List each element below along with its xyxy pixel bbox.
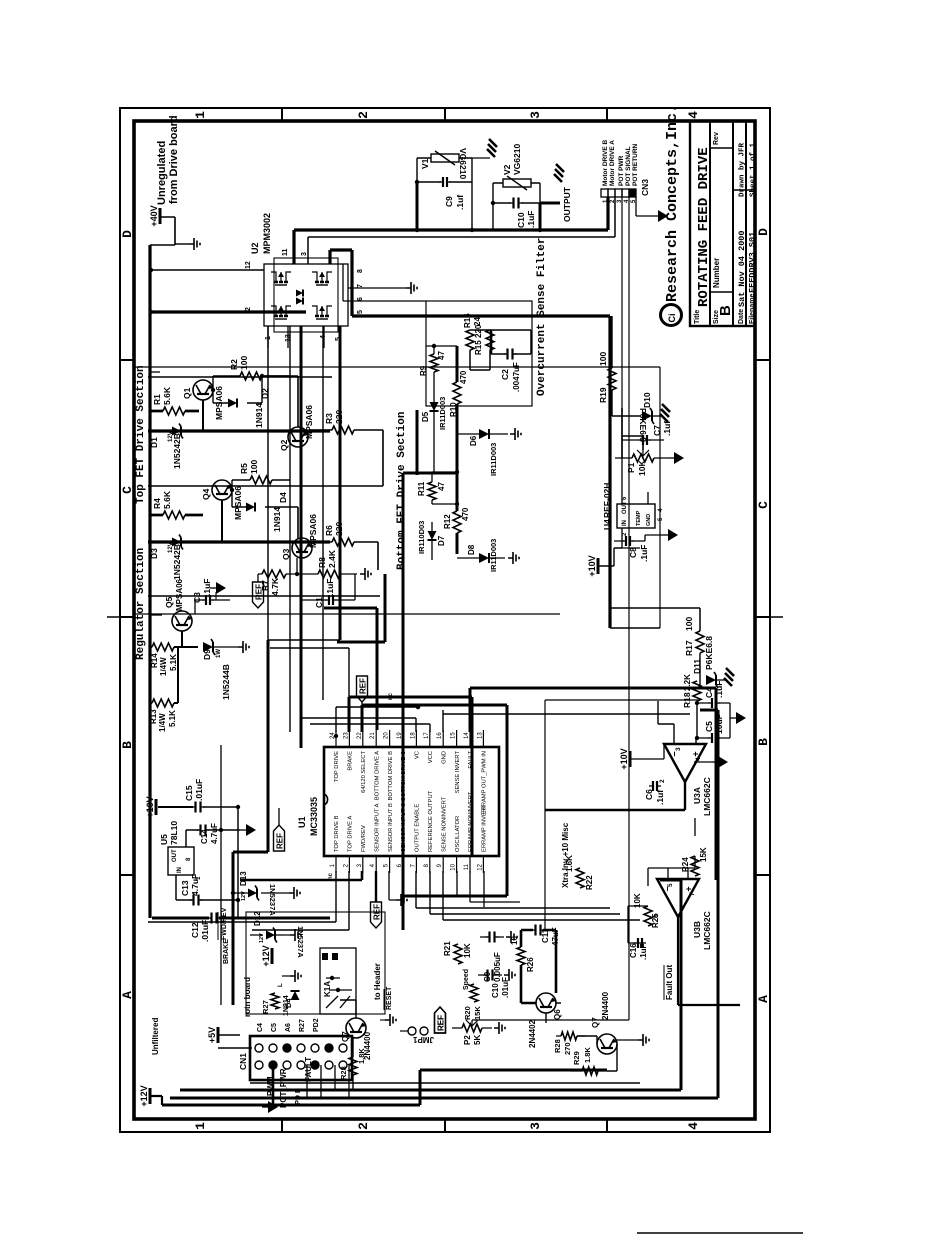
- svg-text:Drawn by JFR: Drawn by JFR: [739, 142, 747, 197]
- svg-text:LMC662C: LMC662C: [702, 911, 712, 950]
- ground T U1: [389, 871, 407, 906]
- resistor R20 15K: [463, 984, 482, 1020]
- svg-text:1N914: 1N914: [254, 403, 264, 428]
- power +40V: [149, 205, 175, 245]
- svg-text:OUTPUT ENABLE: OUTPUT ENABLE: [415, 804, 421, 852]
- svg-text:R7: R7: [260, 580, 270, 591]
- ground D6: [510, 428, 521, 440]
- svg-text:R29: R29: [572, 1051, 581, 1065]
- svg-text:C7: C7: [652, 425, 662, 436]
- svg-text:Sat Nov 04 2000: Sat Nov 04 2000: [737, 230, 747, 307]
- svg-text:K1A: K1A: [323, 981, 332, 997]
- svg-text:12V: 12V: [168, 542, 174, 553]
- svg-text:.1uF: .1uF: [325, 579, 335, 596]
- wire U1 pins up 1: [252, 871, 349, 930]
- wire Q1 base node: [211, 376, 215, 403]
- zener D9 1N5244B: [202, 639, 231, 700]
- svg-text:VG6210: VG6210: [458, 148, 468, 179]
- ground T D12: [284, 929, 301, 941]
- svg-text:4.7uF: 4.7uF: [210, 823, 219, 844]
- wire Q5 collector line: [134, 613, 560, 615]
- wire D9 to gnd: [213, 646, 238, 648]
- wire U1 osc: [457, 871, 520, 907]
- svg-text:Q7: Q7: [591, 1017, 600, 1028]
- resistor R13 5.1K 1/4W: [149, 699, 177, 732]
- ground arrow CN3: [652, 210, 668, 222]
- varistor V2: [502, 144, 531, 190]
- svg-text:D11: D11: [692, 659, 702, 674]
- svg-text:D8: D8: [467, 544, 476, 555]
- svg-text:1/4W: 1/4W: [158, 713, 167, 732]
- power +12V: [139, 1085, 162, 1106]
- svg-text:R17: R17: [684, 640, 694, 656]
- svg-text:4.7K: 4.7K: [270, 577, 280, 596]
- svg-text:.1uF: .1uF: [639, 545, 649, 562]
- svg-text:1W: 1W: [216, 649, 222, 658]
- svg-text:Number: Number: [712, 258, 721, 288]
- svg-text:R13: R13: [149, 709, 158, 724]
- svg-text:OSCILLATOR: OSCILLATOR: [455, 816, 461, 852]
- svg-text:1N5244B: 1N5244B: [221, 664, 231, 700]
- svg-text:Date: Date: [738, 309, 745, 324]
- resistor R12 470: [443, 507, 470, 533]
- ground near +40V: [175, 238, 200, 250]
- transistor Q3 MPSA06: [281, 514, 318, 560]
- svg-text:C16: C16: [629, 943, 638, 958]
- wire staircase mid: [337, 574, 385, 642]
- svg-text:.0047uF: .0047uF: [512, 362, 521, 392]
- net tag REF p2: [435, 1007, 446, 1033]
- svg-text:Motor DRIVE B: Motor DRIVE B: [602, 139, 609, 186]
- junction R7/Q3: [295, 558, 299, 576]
- ground arrow C8: [645, 529, 678, 541]
- resistor R6 220: [324, 522, 354, 546]
- zener D12 1N5237A: [250, 911, 305, 958]
- svg-text:R19: R19: [598, 387, 608, 403]
- svg-text:100: 100: [239, 356, 249, 370]
- svg-text:78L10: 78L10: [169, 821, 179, 845]
- cap C7 .1uf: [622, 421, 672, 445]
- svg-text:P1: P1: [626, 462, 636, 473]
- svg-text:+10V: +10V: [587, 555, 597, 576]
- svg-text:GND: GND: [646, 514, 652, 526]
- svg-text:R9: R9: [419, 365, 428, 376]
- svg-text:+10V: +10V: [145, 796, 155, 817]
- transistor Q7 2N4400: [341, 1018, 372, 1060]
- svg-text:47: 47: [437, 351, 446, 360]
- svg-text:rotn board: rotn board: [243, 977, 252, 1017]
- svg-text:FWD/REV: FWD/REV: [361, 825, 367, 852]
- svg-text:Fault Out: Fault Out: [665, 965, 674, 1000]
- svg-text:R27: R27: [261, 1000, 270, 1014]
- junction V1: [415, 180, 474, 232]
- zener D10 P6KE6.8: [638, 392, 654, 442]
- svg-text:15: 15: [451, 732, 457, 739]
- svg-text:IN: IN: [622, 520, 628, 526]
- svg-text:100: 100: [598, 352, 608, 366]
- svg-text:2: 2: [356, 1122, 371, 1130]
- wire gate bus 2: [148, 540, 330, 543]
- fold marks: [107, 616, 783, 618]
- relay section outline: [246, 912, 385, 1014]
- scan artifact line: [637, 1232, 803, 1234]
- title block: title text ROTATING FEED DRIVE: [696, 147, 712, 307]
- svg-text:R6: R6: [324, 525, 334, 536]
- svg-text:BRAKE: BRAKE: [348, 751, 354, 771]
- svg-text:12: 12: [477, 863, 483, 870]
- svg-text:D: D: [756, 228, 771, 236]
- wire Q6 Q7b: [521, 930, 617, 1071]
- wire +12V relay feed: [220, 745, 222, 1005]
- resistor R3 220: [324, 410, 354, 434]
- resistor R14 5.1K 1/4W: [150, 643, 178, 676]
- section heading Overcurrent Sense Filter: [536, 238, 548, 396]
- cap C2 .0047uF: [500, 349, 521, 393]
- svg-text:IR11D003: IR11D003: [489, 539, 498, 572]
- transistor Q6 2N4402: [528, 993, 562, 1048]
- wire U2 to sense: [330, 250, 352, 316]
- svg-text:Title: Title: [694, 310, 701, 324]
- wire Q3 wiring: [280, 507, 378, 570]
- text Xtra Inv +10 Misc: [561, 822, 570, 888]
- svg-text:R1: R1: [152, 394, 162, 405]
- svg-text:R4: R4: [152, 498, 162, 509]
- svg-text:R26: R26: [526, 957, 535, 972]
- svg-text:SENSOR INPUT A: SENSOR INPUT A: [374, 803, 380, 852]
- svg-text:3: 3: [528, 1122, 543, 1130]
- svg-text:TOP DRIVE: TOP DRIVE: [334, 751, 340, 782]
- ic U2 MPM3002 outline: [264, 258, 348, 332]
- svg-text:.1uF: .1uF: [202, 579, 212, 596]
- svg-text:C10: C10: [516, 212, 526, 228]
- svg-text:C1: C1: [314, 597, 324, 608]
- svg-text:Sheet 1 of 1: Sheet 1 of 1: [750, 142, 758, 197]
- resistor R7 4.7K: [258, 570, 318, 596]
- resistor R2 100: [213, 356, 290, 380]
- resistor R19 100: [598, 352, 616, 403]
- wire overcurrent: [470, 330, 531, 370]
- ground Q7b: [617, 1034, 649, 1046]
- transistor Q5 MPSA06: [164, 578, 192, 631]
- ic U5 78L10: [159, 821, 202, 880]
- svg-text:C15: C15: [184, 785, 194, 801]
- svg-text:U1: U1: [297, 816, 307, 828]
- wire long runs right2: [700, 710, 718, 1098]
- svg-text:Unregulated: Unregulated: [156, 141, 168, 205]
- text nc pin20: [388, 692, 394, 700]
- svg-text:1N914: 1N914: [272, 507, 282, 532]
- resistor R16 24: [463, 313, 482, 350]
- svg-text:R8: R8: [317, 557, 327, 568]
- svg-text:470: 470: [461, 507, 470, 521]
- svg-text:21: 21: [370, 732, 376, 739]
- svg-text:D6: D6: [469, 435, 478, 446]
- wire D2/R2 join: [260, 374, 290, 403]
- svg-text:V2: V2: [502, 164, 512, 175]
- wire long runs right: [660, 880, 681, 1090]
- svg-text:C: C: [120, 486, 135, 494]
- svg-text:1: 1: [193, 111, 208, 119]
- ground arrow P1: [668, 452, 684, 464]
- cap C8 .1uF: [614, 536, 649, 562]
- CN1 side labels: [257, 1018, 320, 1104]
- svg-text:+: +: [684, 886, 694, 891]
- svg-text:1.8K: 1.8K: [583, 1047, 592, 1063]
- wire sense bus L: [352, 316, 610, 628]
- arrow gnd bottom: [262, 1101, 278, 1113]
- wire thin frame around U1: [545, 700, 700, 930]
- svg-text:.01uF: .01uF: [194, 779, 204, 801]
- opamp U3B LMC662C: [653, 879, 712, 950]
- text OUTPUT: [562, 186, 572, 222]
- diode U2 body 1: [296, 290, 303, 297]
- varistor V1: [420, 148, 468, 179]
- svg-text:FEEDDRV3.S01: FEEDDRV3.S01: [748, 232, 758, 293]
- title block: Title label: [694, 310, 701, 324]
- svg-text:D4: D4: [278, 492, 288, 503]
- svg-text:12: 12: [245, 261, 252, 269]
- wire rail drop: [149, 371, 160, 373]
- cap C14 4.7uF: [186, 823, 240, 847]
- svg-text:2.4K: 2.4K: [327, 549, 337, 568]
- svg-text:FWD/REV: FWD/REV: [221, 907, 228, 940]
- wire +10V joins: [236, 805, 240, 918]
- svg-text:PWM: PWM: [266, 1076, 275, 1096]
- wire long L1: [700, 688, 716, 880]
- resistor R29 1.8K: [570, 1047, 607, 1075]
- title block: Size label: [713, 305, 734, 324]
- svg-text:BOTTOM DRIVE A: BOTTOM DRIVE A: [374, 751, 380, 800]
- wire U2 drain rail: [149, 268, 306, 314]
- svg-text:12V: 12V: [168, 431, 174, 442]
- svg-text:16: 16: [437, 732, 443, 739]
- wire U3B: [628, 818, 695, 943]
- svg-text:2N4400: 2N4400: [601, 991, 610, 1020]
- svg-text:U3B: U3B: [692, 921, 702, 938]
- svg-text:IR11D003: IR11D003: [489, 443, 498, 476]
- wire Q4 base node: [230, 480, 234, 507]
- junction V2: [491, 201, 542, 232]
- svg-text:V1: V1: [420, 158, 430, 169]
- transistor Q7b 2N4400: [591, 991, 617, 1054]
- net tag REF reg: [253, 574, 264, 608]
- title block: Filename row: [748, 232, 758, 324]
- cap C3 .1uF: [192, 579, 230, 614]
- jumper JMP1: [400, 1027, 434, 1044]
- svg-text:10: 10: [451, 863, 457, 870]
- power +12V K1A: [261, 945, 272, 966]
- svg-text:D9: D9: [202, 649, 212, 660]
- svg-text:REF: REF: [437, 1015, 446, 1031]
- wire bottom long runs: [170, 1070, 718, 1098]
- svg-text:VC: VC: [415, 751, 421, 759]
- relay K1A box: [320, 948, 356, 1014]
- svg-text:20: 20: [384, 732, 390, 739]
- label U2 MPM3002: [250, 213, 272, 254]
- svg-text:A6: A6: [285, 1023, 292, 1032]
- svg-text:R27: R27: [299, 1019, 306, 1032]
- power +10V U5: [145, 796, 193, 817]
- svg-text:1.6K: 1.6K: [565, 855, 574, 872]
- svg-text:4: 4: [686, 111, 701, 119]
- svg-text:D7: D7: [437, 535, 446, 546]
- text Fault Out: [664, 965, 674, 1000]
- svg-text:11: 11: [282, 248, 289, 256]
- wire U1 fault: [443, 713, 690, 715]
- svg-text:+12V: +12V: [261, 945, 271, 966]
- wire U1 bottom drive A: [324, 608, 377, 730]
- svg-text:VCC: VCC: [428, 751, 434, 763]
- svg-text:1/4W: 1/4W: [159, 657, 168, 676]
- text BRAKE b: [221, 939, 230, 964]
- diode D7 IR110D03: [417, 521, 446, 554]
- svg-text:5.1K: 5.1K: [168, 710, 177, 727]
- wire U2 aux: [343, 264, 426, 301]
- ground U2 pin7: [348, 282, 417, 294]
- mosfet U2-A1: [271, 272, 291, 285]
- svg-text:14: 14: [464, 732, 470, 739]
- wire U1 bottom drive C: [403, 473, 419, 930]
- junction U1 vc: [416, 705, 420, 709]
- svg-text:C2: C2: [500, 369, 510, 380]
- ground D9: [238, 641, 249, 653]
- border zone ticks: [120, 108, 770, 1132]
- svg-text:Filename: Filename: [749, 294, 756, 324]
- svg-text:R15: R15: [474, 340, 483, 355]
- chassis D11: [716, 668, 734, 686]
- svg-text:IR11D003: IR11D003: [438, 397, 447, 430]
- svg-text:A: A: [756, 995, 771, 1003]
- svg-text:4: 4: [695, 757, 702, 761]
- svg-text:7: 7: [689, 892, 696, 896]
- cap C16 .1uF: [629, 938, 648, 960]
- wire CN3 return: [636, 197, 652, 216]
- svg-text:R28: R28: [339, 1066, 348, 1080]
- svg-text:R11: R11: [417, 481, 426, 496]
- wire regulator chain: [150, 631, 198, 703]
- svg-text:SENSE INVERT: SENSE INVERT: [455, 751, 461, 794]
- overcurrent filter box: [426, 301, 532, 406]
- svg-text:U5: U5: [159, 834, 169, 845]
- transistor Q1 MPSA06: [182, 380, 224, 420]
- svg-text:to Header: to Header: [373, 963, 382, 1000]
- CN3 labels: [602, 139, 639, 186]
- svg-text:C12: C12: [190, 922, 200, 938]
- ground T P2: [494, 1022, 505, 1034]
- svg-text:64/120 SELECT: 64/120 SELECT: [361, 751, 367, 793]
- text Unregulated from Drive board: [156, 115, 180, 205]
- wire long runs right3: [250, 1082, 640, 1084]
- svg-text:1N914: 1N914: [283, 995, 290, 1016]
- svg-text:POT SIGNAL: POT SIGNAL: [625, 146, 632, 186]
- svg-text:L: L: [278, 983, 284, 987]
- ground T C9b: [506, 931, 517, 943]
- svg-text:IN: IN: [177, 867, 183, 873]
- ground D8: [508, 552, 519, 564]
- wire U1 right loop2: [362, 705, 507, 896]
- resistor R1 5.6K: [149, 386, 199, 415]
- svg-text:Research Concepts,Inc.: Research Concepts,Inc.: [664, 104, 681, 302]
- diode U2 body 2: [296, 298, 303, 305]
- diode D4b 1N914: [283, 991, 300, 1016]
- svg-text:MPSA06: MPSA06: [304, 405, 314, 439]
- resistor R28 270: [553, 1032, 585, 1055]
- svg-text:Speed: Speed: [463, 969, 470, 990]
- wire +5V to CN1: [218, 1047, 252, 1049]
- svg-text:Q2: Q2: [279, 439, 289, 451]
- wire Q1 emitter: [202, 400, 204, 431]
- svg-text:Q1: Q1: [182, 387, 192, 399]
- svg-text:MPM3002: MPM3002: [262, 213, 272, 254]
- svg-text:JMP1: JMP1: [413, 1035, 434, 1044]
- svg-text:+5V: +5V: [207, 1027, 217, 1043]
- diode D5 IR11D003: [421, 397, 447, 430]
- svg-text:12V: 12V: [259, 933, 265, 943]
- zener D1 1N5242B: [149, 424, 203, 470]
- cap C12 .01uF: [190, 913, 221, 943]
- svg-text:10K: 10K: [637, 460, 647, 476]
- svg-text:C3: C3: [192, 592, 202, 603]
- wire C11 loop: [521, 930, 556, 993]
- svg-text:1N5237A: 1N5237A: [268, 884, 277, 916]
- svg-text:A: A: [120, 991, 135, 999]
- net tag REF jmp: [435, 1007, 446, 1033]
- svg-text:+10V: +10V: [619, 748, 629, 769]
- mosfet U2-B1: [271, 306, 291, 319]
- title block: Drawn by: [739, 142, 747, 197]
- cap C10 .1uF: [510, 198, 537, 229]
- svg-text:TOP DRIVE A: TOP DRIVE A: [348, 816, 354, 852]
- svg-text:R16: R16: [463, 313, 472, 328]
- svg-text:U2: U2: [250, 242, 260, 254]
- resistor R27: [261, 983, 284, 1014]
- cap C10b .01uF: [478, 970, 510, 999]
- svg-text:Q6: Q6: [553, 1009, 562, 1020]
- svg-text:6: 6: [653, 914, 660, 918]
- svg-text:+40V: +40V: [149, 205, 159, 226]
- resistor R24 15K: [681, 847, 708, 876]
- svg-text:+: +: [691, 751, 701, 756]
- svg-text:CN1: CN1: [238, 1053, 248, 1070]
- svg-text:5.6K: 5.6K: [162, 490, 172, 509]
- svg-text:5: 5: [357, 310, 364, 314]
- wire U2 pin12 feed: [152, 269, 264, 271]
- cap C4 .1uF: [697, 681, 730, 708]
- wire V1/C9: [417, 158, 472, 230]
- wire U1 pin13 long: [470, 688, 700, 732]
- svg-text:CN3: CN3: [640, 179, 650, 196]
- title block: Number label: [712, 258, 721, 288]
- svg-text:.1uF: .1uF: [639, 943, 648, 960]
- ic U4 REF-02H: [602, 483, 664, 536]
- label U1 MC33035: [297, 797, 319, 836]
- diode D8 IR11D003: [457, 539, 505, 572]
- wire C12 branch: [152, 917, 330, 920]
- cap C5 10uF: [697, 714, 730, 743]
- svg-text:R2: R2: [229, 359, 239, 370]
- svg-text:Top FET Drive Section: Top FET Drive Section: [135, 365, 147, 504]
- wire bus U2-U1 b: [289, 326, 291, 732]
- resistor R21 10K: [443, 941, 472, 964]
- ground T D13: [289, 887, 300, 899]
- zener D3 1N5242B: [149, 535, 203, 581]
- pot P2 5K: [452, 1020, 492, 1045]
- svg-text:FAULT: FAULT: [304, 1057, 313, 1082]
- CN3 pin numbers: [603, 199, 637, 203]
- wire pot signal to P2: [472, 1019, 629, 1021]
- wire U3A out: [545, 782, 685, 810]
- svg-text:R5: R5: [239, 463, 249, 474]
